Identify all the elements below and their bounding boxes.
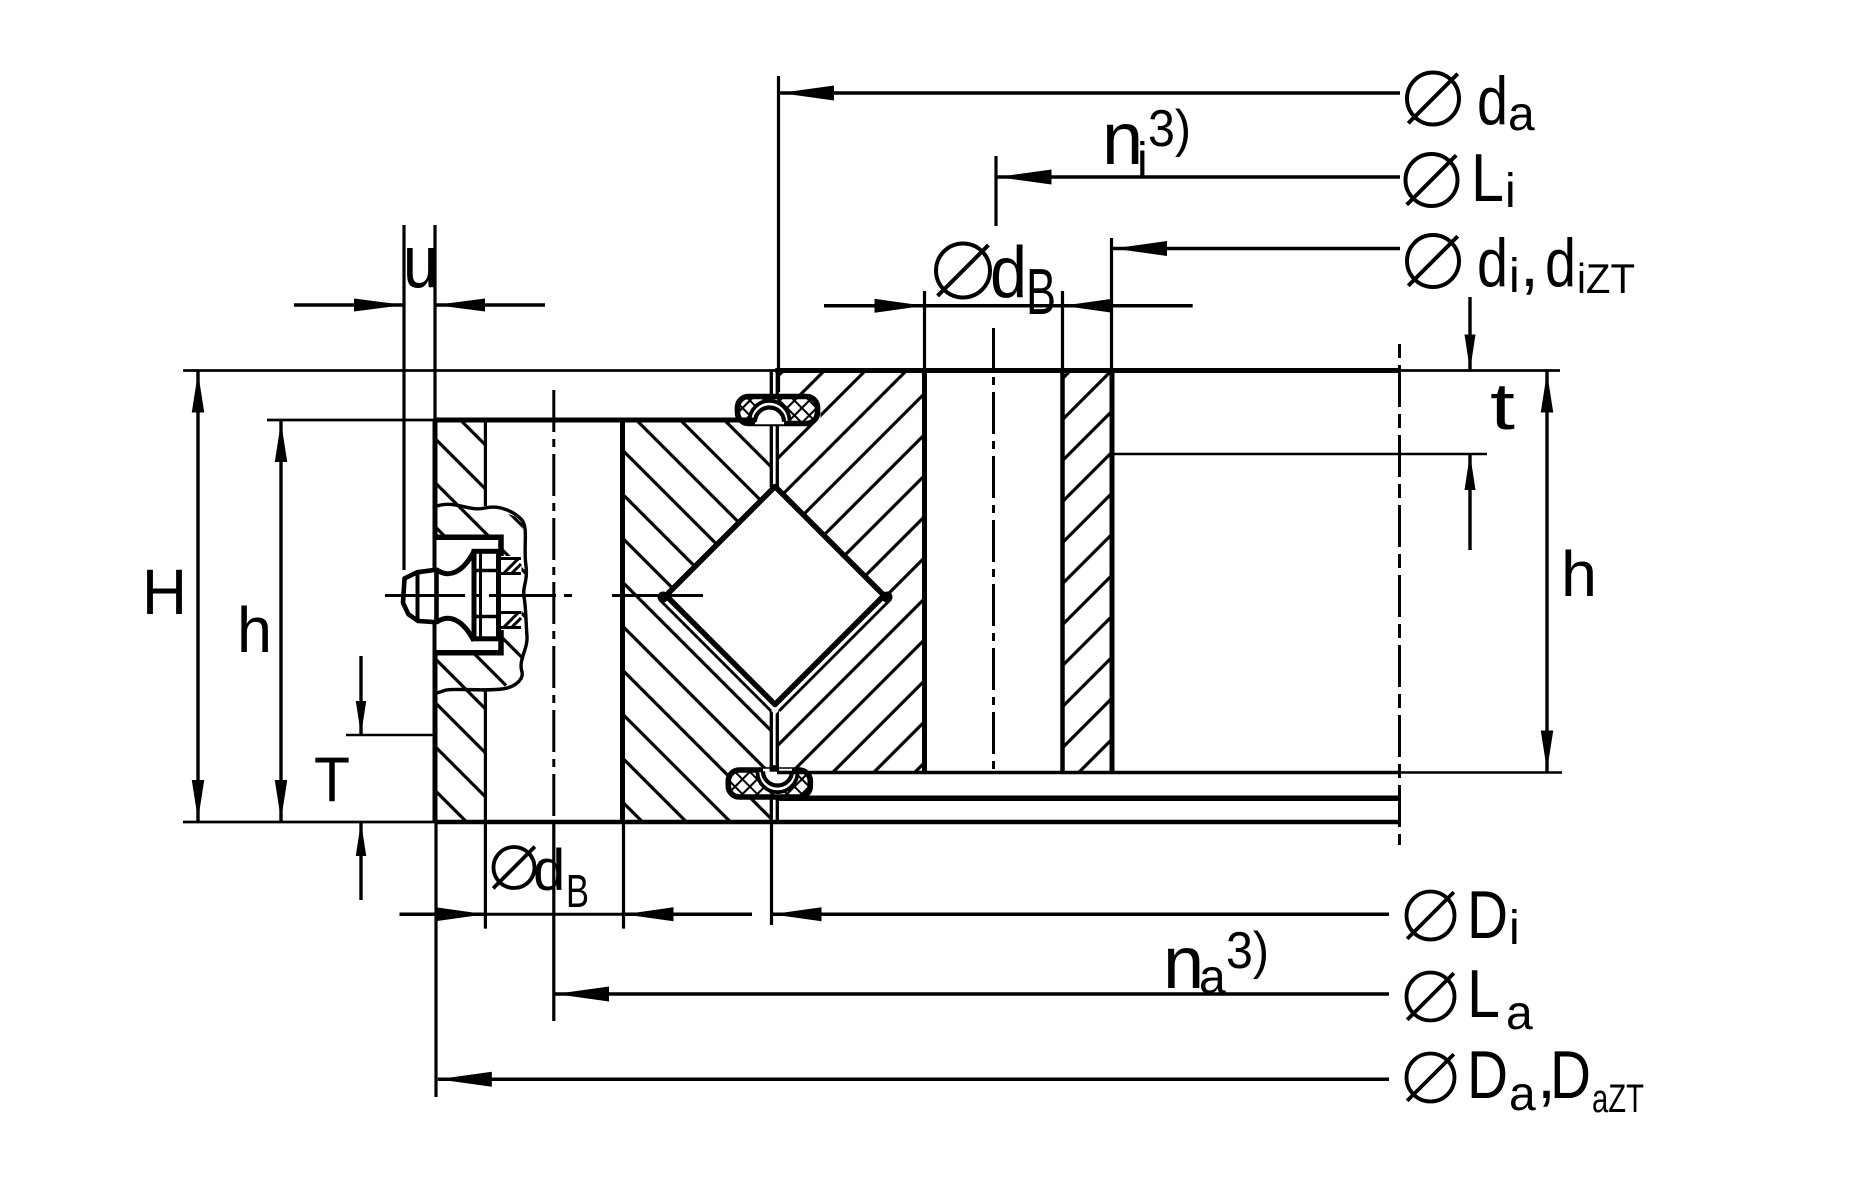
T level line — [346, 734, 435, 737]
svg-text:d: d — [533, 838, 565, 903]
raceway line lower-left — [660, 600, 772, 712]
vertex dot left — [658, 592, 669, 603]
T lower arrow line — [359, 822, 362, 900]
joint gap top (white) — [773, 370, 776, 486]
roller clearance sliver — [657, 596, 893, 715]
label dia L_i symbol — [1406, 154, 1458, 206]
outer ring hatched section — [420, 400, 800, 840]
t level line — [1112, 453, 1487, 456]
svg-text:d: d — [990, 233, 1027, 313]
extension line L_a — [552, 822, 555, 1021]
svg-text:D: D — [1467, 877, 1508, 953]
grease nipple hex body — [474, 551, 499, 639]
svg-text:B: B — [1026, 255, 1056, 328]
right section centreline — [1398, 344, 1401, 845]
svg-text:h: h — [1561, 538, 1597, 610]
extension line d_i — [1110, 238, 1113, 371]
top seal (elastomer, cross-hatched) — [738, 397, 818, 424]
extension line L_i — [994, 156, 997, 226]
bottom seal (elastomer, cross-hatched) — [728, 770, 810, 797]
label dia d_i symbol — [1407, 235, 1459, 287]
inner ring hole edge right — [1060, 371, 1065, 773]
svg-text:a: a — [1508, 88, 1535, 141]
inner ring hatched section — [760, 360, 1130, 790]
extension line u right — [433, 225, 436, 420]
joint gap bottom (white) — [773, 704, 776, 823]
inner ring hole edge left — [922, 371, 927, 773]
label dia D_i symbol — [1407, 892, 1455, 940]
outer ring hole edge upper — [484, 420, 487, 506]
svg-text:H: H — [142, 556, 187, 628]
support strip thick line — [776, 795, 1400, 801]
svg-text:a: a — [1506, 987, 1533, 1040]
svg-text:a: a — [1199, 951, 1226, 1004]
grease nipple head — [403, 570, 437, 623]
outer ring hole edge lower — [484, 689, 487, 822]
extension line dB-bottom left — [484, 822, 487, 929]
extension line u left (nipple tip) — [402, 225, 405, 570]
label dia d_a symbol — [1407, 73, 1459, 125]
outer ring top extension (h) — [267, 419, 435, 422]
joint gap line below roller left — [770, 704, 773, 771]
svg-text:i: i — [1509, 902, 1520, 955]
extension line dB-bottom right — [622, 822, 625, 929]
svg-text:i: i — [1505, 165, 1516, 218]
h bottom extension right — [1400, 771, 1563, 774]
joint gap line lower-right — [776, 797, 779, 823]
svg-text:aZT: aZT — [1592, 1077, 1644, 1121]
joint gap line above roller left — [770, 420, 773, 487]
seal groove inner ring (white) — [777, 396, 820, 425]
t lower arrow line — [1468, 454, 1471, 550]
svg-text:L: L — [1471, 140, 1504, 216]
svg-text:n: n — [1163, 921, 1204, 1004]
raceway line lower-right — [779, 600, 891, 712]
svg-text:a: a — [1509, 1068, 1536, 1121]
outer hole centreline — [552, 390, 555, 822]
inner hole centreline — [992, 328, 995, 773]
grease nipple neck — [437, 551, 475, 641]
h right arrow line — [1545, 371, 1548, 773]
joint gap line below roller right — [776, 704, 779, 771]
vertex dot right — [882, 592, 893, 603]
hex corner line — [479, 551, 482, 639]
svg-text:3): 3) — [1148, 100, 1191, 158]
label dia L_a symbol — [1407, 973, 1455, 1021]
label dia D_a symbol — [1407, 1054, 1455, 1102]
outer ring outside face D_a — [433, 420, 438, 822]
svg-text:L: L — [1467, 956, 1500, 1032]
outer ring bottom surface — [435, 820, 1400, 825]
extension line d_a — [777, 76, 780, 392]
svg-text:D: D — [1467, 1037, 1508, 1113]
bolt hole outer ring (white) — [485, 420, 622, 822]
inner ring bore face d_i — [1110, 371, 1115, 773]
svg-text:D: D — [1550, 1037, 1591, 1113]
svg-text:t: t — [1490, 369, 1515, 443]
main horizontal centreline — [385, 594, 465, 597]
svg-text:T: T — [314, 745, 350, 815]
nipple head bevel line — [416, 572, 420, 622]
svg-text:d: d — [1545, 225, 1576, 301]
svg-text:i: i — [1137, 134, 1148, 187]
label dia dB top symbol — [936, 244, 990, 298]
bolt hole inner ring (white) — [925, 371, 1063, 773]
extension line D_a — [434, 822, 437, 1097]
outer ring hole edge right — [620, 420, 625, 822]
joint lip contact blob — [770, 765, 780, 772]
top seal lip — [750, 401, 790, 421]
svg-text:i: i — [1509, 250, 1520, 303]
inner ring bottom surface — [777, 771, 1400, 775]
grease nipple counterbore — [437, 537, 502, 653]
t upper arrow line — [1468, 297, 1471, 371]
svg-text:d: d — [1477, 63, 1508, 139]
svg-text:B: B — [566, 865, 589, 917]
joint gap line upper-left — [770, 371, 773, 396]
bottom seal lip — [758, 772, 798, 792]
inner ring top surface — [775, 368, 1399, 373]
extension line D_i — [770, 824, 773, 925]
svg-text:3): 3) — [1226, 922, 1269, 980]
joint gap line upper-right — [776, 371, 779, 396]
break-out section wavy outline — [437, 504, 527, 693]
h left arrow line — [279, 420, 282, 822]
T upper arrow line — [359, 656, 362, 735]
bottom extension line (H bottom) — [183, 821, 435, 824]
extension line dB-top left — [923, 291, 926, 371]
thread marks — [501, 557, 521, 560]
H arrow line — [196, 371, 199, 823]
label dia dB bottom symbol — [493, 847, 535, 889]
joint gap line above roller right — [776, 420, 779, 487]
svg-text:h: h — [237, 594, 272, 666]
svg-text:iZT: iZT — [1577, 255, 1635, 302]
outer ring top surface — [435, 418, 756, 423]
joint gap line lower-left — [770, 797, 773, 823]
svg-text:,: , — [1520, 225, 1539, 301]
top surface extension line (H top) — [183, 369, 1560, 372]
svg-text:d: d — [1477, 225, 1508, 301]
roller (crossed roller, square section) — [666, 487, 884, 705]
svg-text:u: u — [403, 221, 438, 304]
tapped hole (white) — [501, 556, 522, 630]
extension line dB-top right — [1061, 291, 1064, 371]
